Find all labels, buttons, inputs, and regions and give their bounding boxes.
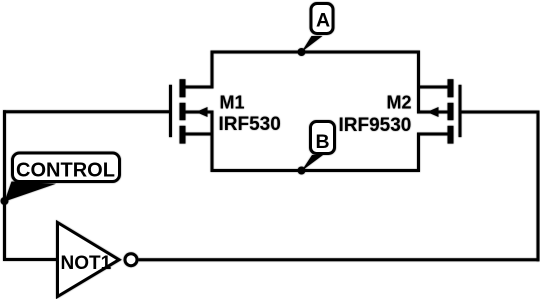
wire: M1 source stub <box>183 111 214 114</box>
wire: right vertical (NOT1 output to M2 gate) <box>537 111 540 262</box>
svg-text:M2: M2 <box>386 93 411 113</box>
wire: M2 source/body vertical <box>417 51 420 114</box>
wire: M1 source/body vertical <box>211 111 214 173</box>
svg-text:B: B <box>315 131 329 153</box>
svg-text:IRF530: IRF530 <box>219 114 281 135</box>
wire: M2 source stub <box>417 111 449 114</box>
svg-text:A: A <box>316 10 330 32</box>
wire: M2 gate lead <box>460 111 540 114</box>
M2 body arrow <box>427 107 439 117</box>
node B junction dot <box>298 167 306 175</box>
node CONTROL junction dot <box>1 197 9 205</box>
transistor M2 (IRF9530 PMOS) <box>427 79 460 143</box>
svg-text:CONTROL: CONTROL <box>16 160 115 182</box>
M2 channel bar top <box>448 79 454 97</box>
wire: bottom rail (node B net) <box>211 169 421 172</box>
wire: M2 bottom stub <box>417 133 449 136</box>
wire: top rail (node A net) <box>211 51 421 54</box>
inverter NOT1 triangle <box>58 223 120 297</box>
wire: left vertical (control net) <box>3 110 6 261</box>
node A junction dot <box>298 48 306 56</box>
node A callout box <box>311 4 333 34</box>
node A callout pointer <box>302 36 323 52</box>
M1 channel bar bottom <box>180 126 186 144</box>
M1 gate bar <box>169 85 172 137</box>
wire: M2 drain stub <box>417 86 449 89</box>
svg-text:IRF9530: IRF9530 <box>339 115 412 136</box>
wire: M1 drain riser <box>211 51 214 89</box>
M1 channel bar top <box>180 79 186 97</box>
M2 channel bar middle <box>448 103 454 120</box>
wire: M1 bottom stub <box>183 133 214 136</box>
wire: M2 drain drop <box>417 133 420 173</box>
node CONTROL callout pointer <box>5 182 57 202</box>
M1 channel bar middle <box>180 103 186 120</box>
transistor M1 (IRF530 NMOS) <box>171 79 208 143</box>
wire: M1 drain stub <box>183 86 214 89</box>
M2 channel bar bottom <box>448 126 454 144</box>
wire: NOT1 output bottom run <box>139 258 540 261</box>
svg-text:NOT1: NOT1 <box>61 253 112 274</box>
inverter NOT1 output bubble <box>125 254 137 266</box>
svg-text:M1: M1 <box>220 93 245 113</box>
wire: NOT1 input <box>3 258 58 261</box>
node CONTROL callout box <box>13 153 120 182</box>
wire: M1 gate lead <box>3 110 171 113</box>
M2 gate bar <box>459 85 462 137</box>
M1 body arrow <box>196 107 208 117</box>
node B callout pointer <box>302 155 324 171</box>
node B callout box <box>311 122 335 154</box>
